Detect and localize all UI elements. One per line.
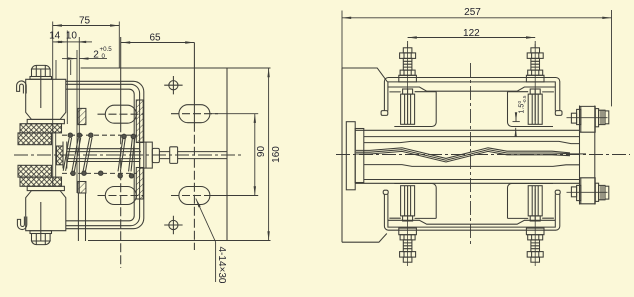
right bolt bottom head [571, 187, 576, 197]
svg-text:1.5: 1.5 [519, 104, 526, 114]
strip tip [574, 153, 586, 155]
right bolt top nut [599, 110, 605, 124]
top pocket right [508, 92, 554, 127]
dim 122 line [408, 37, 536, 39]
right bolt top washer1 [577, 109, 581, 124]
oval column center line right [193, 43, 195, 123]
slot O3 [105, 187, 136, 205]
hook top [17, 81, 27, 94]
frame section hatch bottom [136, 168, 143, 200]
dim 2 line arrows [62, 58, 77, 60]
dim 122 extensions [408, 41, 536, 48]
spring right 1 [118, 138, 125, 172]
dim 90 line [254, 114, 256, 196]
svg-text:10: 10 [66, 31, 78, 42]
insulator strut bottom [78, 193, 85, 241]
svg-text:2: 2 [93, 50, 99, 61]
right bolt bottom locknut [605, 186, 609, 199]
plate under block bottom [27, 186, 64, 190]
contact strip A top [20, 124, 62, 133]
crosshair mark top [169, 81, 178, 90]
crosshair mark bottom [169, 220, 178, 229]
channel bottom lines [355, 180, 579, 184]
clamp block top [26, 69, 66, 119]
bottom right foot [555, 190, 560, 194]
housing boss top edges [389, 91, 554, 93]
dim 1.5 line [515, 114, 517, 122]
insulator section bottom [78, 182, 86, 194]
right bolt top axis [567, 117, 608, 119]
threaded rod [159, 152, 226, 159]
slot O4 [179, 187, 210, 205]
right bolt bottom washer2 [595, 183, 598, 201]
spring right 2 [129, 138, 135, 172]
svg-text:160: 160 [271, 146, 282, 163]
washer bottom [30, 231, 52, 234]
svg-text:4-14×30: 4-14×30 [216, 247, 227, 284]
top strap outer [384, 78, 559, 111]
clamp frame inner [66, 89, 134, 221]
RIGHT-VIEW [342, 68, 562, 242]
spring left 1 [63, 138, 71, 171]
spring pin circles bottom [71, 171, 75, 175]
dim 160 line [268, 68, 270, 241]
svg-text:122: 122 [463, 28, 480, 39]
clamp frame middle [66, 84, 140, 225]
bottom pocket right [508, 184, 554, 219]
stud bolt top-left [399, 44, 417, 124]
dim 257 extensions [342, 10, 612, 106]
dim 65 line [121, 42, 194, 44]
right bolt bottom washer1 [577, 185, 581, 200]
slot O2 [179, 105, 210, 123]
oval column center line left [120, 37, 122, 123]
frame section hatch top [136, 100, 143, 143]
housing left profile [342, 68, 388, 242]
spring pin circles top [68, 133, 72, 137]
bottom left foot [383, 190, 388, 194]
top pocket left [394, 92, 436, 127]
bottom strap inner [388, 194, 555, 227]
washer top [30, 77, 52, 80]
contact strip B top [18, 133, 52, 145]
shaft [68, 149, 142, 162]
dim 257 line [342, 17, 612, 19]
shaft nut stack [140, 142, 153, 168]
hex bolt bottom [32, 234, 51, 245]
top strap underside [388, 87, 555, 91]
svg-text:65: 65 [149, 33, 161, 44]
contact strip A bottom [20, 177, 62, 186]
channel top lines [355, 130, 579, 136]
jaw section hatched [57, 146, 64, 165]
right bolt top washer2 [595, 109, 598, 127]
clamp frame outer [66, 81, 144, 228]
spring anchor dash line top [62, 134, 137, 136]
right bracket bottom block [580, 178, 596, 204]
dim 14 line [53, 41, 68, 43]
channel right end plate [580, 106, 595, 205]
dim 10 line arrow [77, 41, 92, 43]
wavy contact strip band [356, 148, 574, 162]
channel left end cap [346, 122, 355, 190]
slot O1 [105, 105, 136, 123]
svg-text:90: 90 [256, 146, 267, 158]
dim 75 extension lines [53, 22, 120, 187]
strap bar edges [56, 60, 71, 179]
spring left 2 [72, 138, 81, 172]
dim 75 line [53, 25, 120, 27]
svg-text:+0.5: +0.5 [100, 46, 113, 53]
right view horizontal center line [336, 154, 630, 156]
dim 14-10 extension lines [67, 31, 79, 194]
svg-text:257: 257 [464, 7, 481, 18]
svg-text:-0.5: -0.5 [522, 95, 527, 103]
right view vertical center line [470, 63, 472, 247]
clamp block bottom [26, 191, 66, 241]
leader 4-14x30 [196, 199, 216, 243]
bottom pocket left [394, 184, 436, 219]
stud bolt top-right [526, 44, 544, 124]
svg-text:14: 14 [49, 31, 61, 42]
bottom strap underside [388, 220, 555, 224]
horizontal center line [14, 154, 242, 156]
right bolt bottom axis [567, 191, 608, 193]
slot center dashes [98, 113, 145, 115]
top strap inner [388, 82, 555, 111]
hex bolt top [32, 65, 51, 76]
dim text 1.5 tolerance [517, 95, 527, 113]
dim 90 extensions [211, 114, 258, 196]
housing boss bottom edges [389, 217, 554, 219]
contact strip B bottom [18, 165, 52, 177]
strip cavity top line [364, 141, 580, 143]
right bolt top head [571, 113, 576, 123]
mounting plate [81, 68, 271, 241]
hook bottom [17, 216, 26, 229]
right bolt bottom nut [599, 185, 605, 199]
strip cavity bottom line [364, 165, 580, 167]
spring left 3 [83, 138, 92, 172]
right bolt top locknut [605, 111, 609, 124]
spring anchor dash line bottom [62, 172, 137, 174]
right bracket top block [580, 106, 596, 132]
top right foot [555, 111, 562, 116]
top left foot [381, 111, 388, 116]
stud bolt bottom-left [399, 186, 417, 266]
svg-text:0: 0 [102, 53, 106, 60]
stud bolt bottom-right [526, 186, 544, 266]
insulator section top [78, 108, 86, 124]
plate under block top [27, 119, 64, 123]
bottom strap outer [384, 194, 559, 230]
svg-text:75: 75 [79, 16, 91, 27]
shaft washer [170, 147, 178, 164]
